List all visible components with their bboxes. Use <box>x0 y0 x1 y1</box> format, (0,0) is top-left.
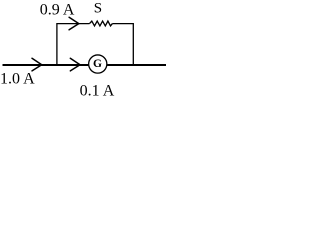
svg-text:S: S <box>94 1 102 17</box>
svg-text:1.0 A: 1.0 A <box>0 71 35 88</box>
svg-text:0.1 A: 0.1 A <box>80 83 115 100</box>
svg-text:G: G <box>93 58 102 70</box>
svg-text:0.9 A: 0.9 A <box>40 2 75 19</box>
